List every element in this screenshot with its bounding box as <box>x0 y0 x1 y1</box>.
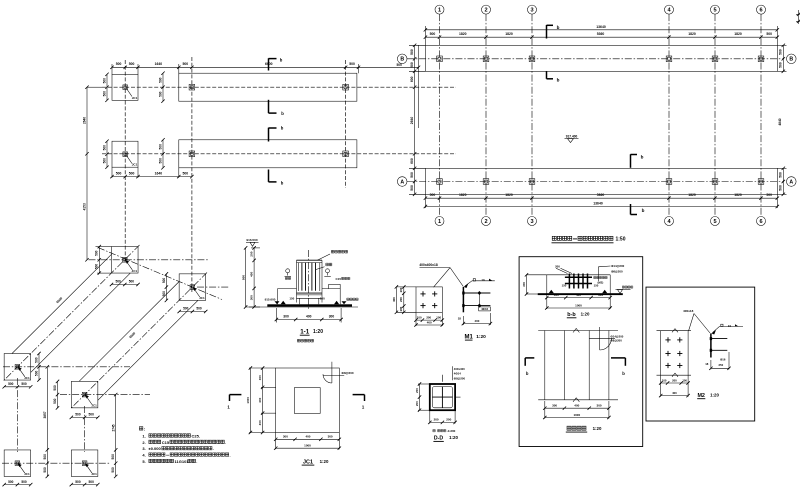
svg-text:500: 500 <box>34 371 38 377</box>
svg-text:400: 400 <box>306 315 312 319</box>
svg-text:B: B <box>789 57 793 63</box>
svg-text:Φ16: Φ16 <box>720 358 726 362</box>
svg-text:500: 500 <box>158 77 162 83</box>
svg-text:200: 200 <box>434 418 439 422</box>
svg-text:400: 400 <box>258 397 262 402</box>
svg-text:500: 500 <box>102 78 106 84</box>
svg-text:500: 500 <box>779 172 783 178</box>
svg-text:1:20: 1:20 <box>320 459 329 464</box>
svg-text:300: 300 <box>283 435 288 439</box>
svg-text:150: 150 <box>562 284 567 288</box>
svg-text:5.: 5. <box>142 459 145 464</box>
svg-text:500: 500 <box>21 382 27 386</box>
svg-text:450: 450 <box>250 272 254 277</box>
svg-text:1:20: 1:20 <box>476 334 486 340</box>
svg-text:500: 500 <box>8 480 14 484</box>
svg-text:5: 5 <box>713 219 716 225</box>
svg-text:2640: 2640 <box>410 117 414 125</box>
svg-text:500: 500 <box>102 158 106 164</box>
svg-text:300: 300 <box>250 295 254 300</box>
svg-text:.: . <box>230 452 231 457</box>
svg-text:JC1: JC1 <box>132 269 138 273</box>
svg-text:500: 500 <box>89 413 95 417</box>
svg-text:B: B <box>400 57 404 63</box>
svg-text:500: 500 <box>129 171 135 175</box>
svg-text:-0.300: -0.300 <box>447 429 456 433</box>
svg-text:400: 400 <box>574 403 579 407</box>
svg-text:300: 300 <box>329 315 335 319</box>
svg-text:500: 500 <box>766 193 772 197</box>
svg-text:500: 500 <box>410 62 414 68</box>
svg-text:200: 200 <box>250 251 254 256</box>
svg-text:C25.: C25. <box>192 433 200 438</box>
svg-text:1820: 1820 <box>459 32 467 36</box>
svg-text:300: 300 <box>598 293 603 297</box>
svg-text:500: 500 <box>34 357 38 363</box>
svg-text:500: 500 <box>183 171 189 175</box>
svg-text:500: 500 <box>53 385 57 391</box>
svg-text:b-b: b-b <box>567 312 576 318</box>
svg-text:6: 6 <box>759 219 762 225</box>
svg-text:1:20: 1:20 <box>313 329 323 335</box>
svg-text:4.: 4. <box>142 452 145 457</box>
svg-text:Φ8@200: Φ8@200 <box>611 339 623 343</box>
svg-text:b: b <box>281 180 284 185</box>
svg-text:500: 500 <box>115 280 121 284</box>
svg-text:200: 200 <box>399 297 403 302</box>
svg-text:1:20: 1:20 <box>710 393 719 398</box>
svg-text:916.500: 916.500 <box>246 238 257 242</box>
svg-text:JC1: JC1 <box>132 96 138 100</box>
svg-text:3: 3 <box>530 219 533 225</box>
svg-text:1820: 1820 <box>505 193 513 197</box>
svg-text:500: 500 <box>183 307 189 311</box>
svg-text:4153: 4153 <box>83 203 87 210</box>
svg-text:500: 500 <box>129 62 135 66</box>
svg-text:1:50: 1:50 <box>615 236 625 242</box>
svg-text:C15: C15 <box>162 440 170 445</box>
svg-text:b: b <box>281 111 284 116</box>
svg-text:2: 2 <box>484 219 487 225</box>
svg-text:1640: 1640 <box>155 62 163 66</box>
svg-text:13640: 13640 <box>596 25 606 29</box>
svg-text:b: b <box>280 58 283 63</box>
svg-text:200: 200 <box>555 264 560 268</box>
svg-text:400: 400 <box>427 320 432 324</box>
svg-text:100: 100 <box>662 378 667 382</box>
svg-text:JC1: JC1 <box>24 376 30 380</box>
svg-text:JC1: JC1 <box>91 404 97 408</box>
svg-text:100: 100 <box>399 306 403 311</box>
svg-text:500: 500 <box>95 264 99 270</box>
svg-text:500: 500 <box>111 467 115 473</box>
svg-text:500: 500 <box>89 480 95 484</box>
svg-text:150: 150 <box>289 297 294 301</box>
svg-text:500: 500 <box>430 193 436 197</box>
svg-text:400x18: 400x18 <box>683 309 694 313</box>
svg-text:600: 600 <box>410 158 414 164</box>
svg-text:JC1: JC1 <box>199 296 205 300</box>
svg-text:1640: 1640 <box>155 171 163 175</box>
svg-text:10: 10 <box>481 278 485 282</box>
svg-text:500: 500 <box>21 480 27 484</box>
svg-text:A: A <box>400 179 404 185</box>
svg-text:300: 300 <box>258 420 262 425</box>
svg-text:A: A <box>789 179 793 185</box>
svg-text:500: 500 <box>158 91 162 97</box>
svg-text:3857: 3857 <box>43 411 47 418</box>
svg-text:.: . <box>213 446 214 451</box>
svg-text:100: 100 <box>436 315 441 319</box>
svg-text:400x400x18: 400x400x18 <box>419 263 438 267</box>
svg-text:b: b <box>557 25 560 30</box>
svg-text:400: 400 <box>474 319 479 323</box>
svg-text:500: 500 <box>95 250 99 256</box>
svg-text:b: b <box>641 155 644 160</box>
svg-text:JC1: JC1 <box>132 163 138 167</box>
svg-text:2: 2 <box>484 8 487 14</box>
svg-text:500: 500 <box>766 32 772 36</box>
svg-text:950: 950 <box>241 275 245 280</box>
svg-text:500: 500 <box>111 454 115 460</box>
svg-text:4840: 4840 <box>778 118 782 125</box>
svg-text:JC1: JC1 <box>303 459 313 465</box>
svg-text:400x400: 400x400 <box>454 367 465 371</box>
svg-text:1000: 1000 <box>573 413 580 417</box>
svg-text:500: 500 <box>183 62 189 66</box>
svg-text:2640: 2640 <box>83 117 87 124</box>
svg-text:500: 500 <box>53 398 57 404</box>
svg-text:500: 500 <box>430 32 436 36</box>
svg-text:500: 500 <box>162 278 166 284</box>
svg-text:5360: 5360 <box>597 32 605 36</box>
svg-text:500: 500 <box>779 62 783 68</box>
svg-text:1820: 1820 <box>688 32 696 36</box>
svg-text:5360: 5360 <box>597 193 605 197</box>
svg-text:b: b <box>642 208 645 213</box>
svg-text:b: b <box>622 371 625 376</box>
svg-text:500: 500 <box>158 158 162 164</box>
svg-text:300: 300 <box>328 435 333 439</box>
svg-text:3: 3 <box>530 8 533 14</box>
svg-text:18: 18 <box>705 362 709 366</box>
svg-text:1.: 1. <box>142 433 145 438</box>
svg-text:Φ8@200: Φ8@200 <box>454 376 466 380</box>
svg-text:b: b <box>557 78 560 83</box>
svg-text:2745: 2745 <box>111 424 115 431</box>
svg-text:200: 200 <box>446 418 451 422</box>
svg-text:150: 150 <box>320 297 325 301</box>
svg-text:500: 500 <box>410 172 414 178</box>
svg-text:M2: M2 <box>697 393 705 399</box>
svg-text:400: 400 <box>576 293 581 297</box>
svg-text:100: 100 <box>417 315 422 319</box>
svg-text:200: 200 <box>415 401 419 406</box>
svg-text:Φ8@200: Φ8@200 <box>611 270 623 274</box>
svg-text:300: 300 <box>258 375 262 380</box>
svg-text:5: 5 <box>713 8 716 14</box>
svg-text:500: 500 <box>43 454 47 460</box>
svg-text:500: 500 <box>196 307 202 311</box>
svg-text:1:20: 1:20 <box>593 426 602 431</box>
svg-text:500: 500 <box>43 467 47 473</box>
svg-text:1820: 1820 <box>505 32 513 36</box>
svg-text:200: 200 <box>426 315 431 319</box>
svg-text:300: 300 <box>283 315 289 319</box>
svg-text:1:20: 1:20 <box>581 312 590 317</box>
svg-text:1000: 1000 <box>304 444 311 448</box>
svg-text:b: b <box>281 126 284 131</box>
svg-text:10: 10 <box>728 324 732 328</box>
svg-text:917.400: 917.400 <box>566 134 578 138</box>
svg-text:400: 400 <box>392 297 396 302</box>
svg-text:200: 200 <box>672 378 677 382</box>
svg-text:915.600: 915.600 <box>265 298 276 302</box>
svg-text:1820: 1820 <box>734 32 742 36</box>
svg-text:JC1: JC1 <box>24 472 30 476</box>
svg-text:500: 500 <box>129 280 135 284</box>
svg-text:500: 500 <box>102 91 106 97</box>
svg-text:.: . <box>225 440 226 445</box>
svg-text:500: 500 <box>116 62 122 66</box>
svg-text:M1: M1 <box>465 334 474 340</box>
svg-text:250: 250 <box>718 363 723 367</box>
svg-text:500: 500 <box>410 49 414 55</box>
svg-text:Φ14@200: Φ14@200 <box>611 264 625 268</box>
svg-text:D-D: D-D <box>434 436 443 442</box>
svg-text:(M2): (M2) <box>598 281 604 285</box>
svg-text:500: 500 <box>158 144 162 150</box>
svg-text:300: 300 <box>552 403 557 407</box>
svg-text:1820: 1820 <box>459 193 467 197</box>
svg-text:500: 500 <box>75 480 81 484</box>
svg-text:6: 6 <box>759 8 762 14</box>
svg-text:1000: 1000 <box>575 303 582 307</box>
svg-text:Φ8@200: Φ8@200 <box>342 371 354 375</box>
svg-text:1820: 1820 <box>734 193 742 197</box>
svg-text:500: 500 <box>116 171 122 175</box>
svg-text:500: 500 <box>8 382 14 386</box>
svg-text:500: 500 <box>349 62 355 66</box>
svg-text:500: 500 <box>75 413 81 417</box>
svg-text:4Φ14: 4Φ14 <box>454 372 461 376</box>
svg-text:1-1: 1-1 <box>300 328 310 335</box>
svg-text:1000: 1000 <box>246 397 250 404</box>
svg-text:1:20: 1:20 <box>449 435 458 440</box>
svg-text:500: 500 <box>397 63 403 67</box>
svg-text:400: 400 <box>305 435 310 439</box>
svg-text:300: 300 <box>522 282 526 287</box>
svg-text:2.: 2. <box>142 440 145 445</box>
svg-text:1820: 1820 <box>688 193 696 197</box>
svg-text:JC1: JC1 <box>91 472 97 476</box>
svg-text:11G101: 11G101 <box>175 459 190 464</box>
svg-text:3.: 3. <box>142 446 145 451</box>
svg-text:b: b <box>526 371 529 376</box>
svg-text:600: 600 <box>410 76 414 82</box>
svg-text:500: 500 <box>102 145 106 151</box>
svg-text:400: 400 <box>672 391 677 395</box>
svg-text:1: 1 <box>438 8 441 14</box>
svg-text:4Φ16: 4Φ16 <box>481 307 488 311</box>
svg-text:200: 200 <box>415 388 419 393</box>
svg-text:.: . <box>196 459 197 464</box>
svg-text:100: 100 <box>399 287 403 292</box>
svg-text:±0.000: ±0.000 <box>149 446 162 451</box>
svg-text:500: 500 <box>779 49 783 55</box>
svg-text:C15: C15 <box>336 277 342 281</box>
svg-text:500: 500 <box>410 185 414 191</box>
svg-text:500: 500 <box>779 185 783 191</box>
svg-text:1: 1 <box>438 219 441 225</box>
svg-text:500: 500 <box>162 291 166 297</box>
svg-text:18: 18 <box>458 317 462 321</box>
svg-text:300: 300 <box>554 293 559 297</box>
svg-text:100: 100 <box>682 378 687 382</box>
svg-text:300: 300 <box>597 403 602 407</box>
svg-text:13640: 13640 <box>593 202 603 206</box>
